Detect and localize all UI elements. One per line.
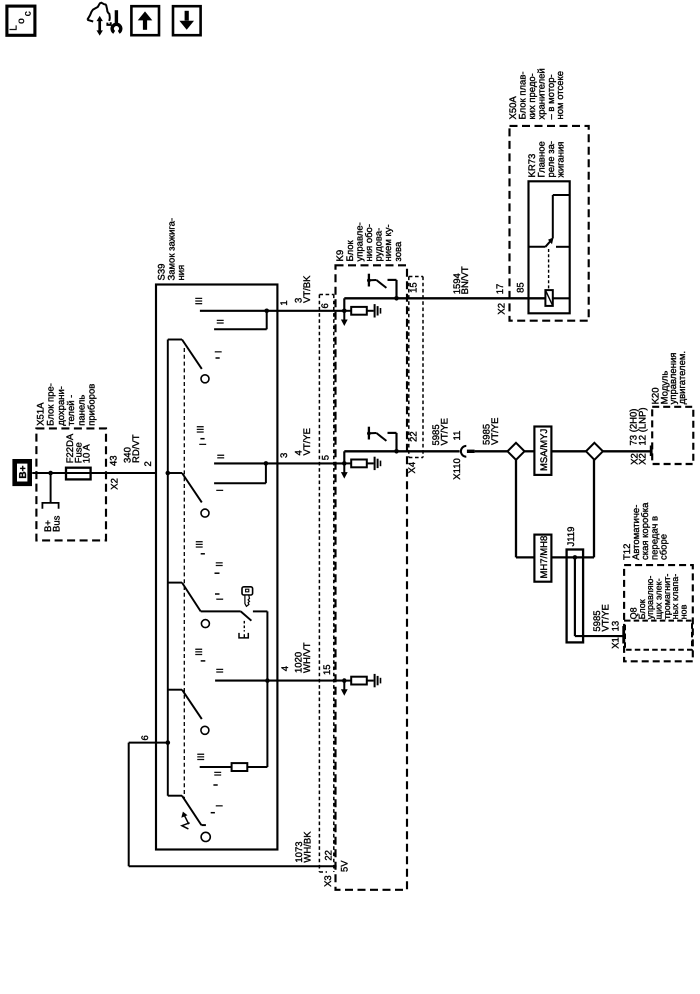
wire J119 to Q8 (5985 VT/YE)	[575, 635, 623, 637]
wire: diamond 1 down to MH7/MH8	[516, 460, 534, 558]
svg-text:I: I	[214, 351, 225, 354]
wire to MSA/MYJ	[525, 450, 535, 452]
svg-text:II: II	[216, 319, 227, 324]
svg-text:43: 43	[109, 455, 120, 466]
wire label 1073 WH/BK	[294, 831, 314, 863]
svg-text:двигателем.: двигателем.	[677, 351, 688, 404]
svg-text:6: 6	[320, 303, 331, 308]
splice diamond 2	[586, 443, 603, 460]
svg-text:I: I	[215, 598, 226, 601]
svg-text:VT/YE: VT/YE	[439, 418, 450, 445]
svg-text:зова: зова	[393, 241, 404, 261]
svg-text:III: III	[196, 425, 207, 433]
splice pack J119	[566, 527, 583, 643]
icon: up-arrow box	[131, 6, 159, 35]
KR73 contact	[529, 195, 570, 247]
S39 wiper arm 2	[168, 473, 209, 517]
svg-text:85: 85	[515, 282, 526, 293]
K9 channel 2 input (pin 5, 4 VT/YE)	[321, 451, 381, 478]
pins 73 (2H0) / 12 (LNP) at K20	[629, 407, 649, 464]
K9 channel 4 input (pin 22, 1073 WH/BK, 5V)	[323, 850, 351, 887]
splice diamond 1	[508, 443, 525, 460]
svg-text:III: III	[194, 648, 205, 656]
svg-text:I: I	[215, 489, 226, 492]
svg-text:приборов: приборов	[87, 384, 98, 426]
svg-text:L: L	[8, 25, 19, 31]
svg-text:6: 6	[140, 735, 151, 740]
svg-text:ном отсеке: ном отсеке	[555, 71, 566, 120]
svg-text:22: 22	[409, 431, 420, 442]
connector X4 strip (dash-dot)	[407, 277, 423, 474]
svg-text:X2: X2	[496, 303, 507, 315]
S39 wiper arm 4	[168, 690, 209, 735]
svg-text:2: 2	[143, 461, 154, 466]
icon: LOC box	[7, 6, 35, 35]
svg-text:II: II	[215, 668, 226, 673]
S39 key-operated contact (channel pin 4)	[201, 611, 268, 680]
body control module K9 (dashed)	[335, 222, 407, 890]
svg-text:o: o	[16, 18, 27, 24]
relay KR73 (main ignition relay)	[527, 141, 570, 313]
option box MSA/MYJ	[534, 427, 551, 475]
ignition switch S39 (Замок зажигания) box	[156, 218, 277, 850]
svg-text:17: 17	[495, 284, 506, 295]
wire label 1594 BN/VT	[452, 266, 471, 294]
transmission assembly T12 (dashed)	[622, 502, 693, 661]
svg-text:15: 15	[322, 664, 333, 675]
svg-text:WH/BK: WH/BK	[303, 831, 314, 863]
terminal at T12	[622, 626, 625, 644]
svg-text:3: 3	[279, 453, 290, 458]
svg-text:I: I	[214, 805, 225, 808]
K9 channel 2 internal switch and bus to pin 22	[344, 427, 459, 454]
svg-text:X110: X110	[452, 458, 463, 479]
svg-text:VT/YE: VT/YE	[490, 418, 501, 445]
svg-text:X2: X2	[109, 478, 120, 490]
svg-text:MH7/MH8: MH7/MH8	[539, 536, 550, 579]
svg-text:жигания: жигания	[556, 142, 567, 178]
position marks II / I near arm 5	[211, 771, 226, 813]
svg-text:Bus: Bus	[51, 515, 62, 532]
wire label 1020 WH/VT	[294, 642, 313, 673]
svg-text:J119: J119	[566, 527, 577, 547]
svg-text:II: II	[213, 771, 224, 776]
svg-text:WH/VT: WH/VT	[302, 642, 313, 673]
svg-text:4: 4	[280, 666, 291, 671]
option box MH7/MH8	[534, 535, 551, 582]
B+ Bus symbol	[42, 473, 62, 532]
engine control module K20 (dashed)	[650, 351, 693, 464]
svg-text:10 A: 10 A	[82, 444, 93, 464]
K9 channel 1 input (pin 6, 3 VT/BK)	[320, 298, 381, 326]
terminal at K20	[650, 446, 653, 457]
S39 contact I line (channel 2)	[214, 461, 268, 492]
wire diamond 2 to K20	[603, 450, 651, 452]
S39 internal feed line	[167, 340, 169, 796]
position marks III near arm 4	[194, 648, 205, 661]
wire label 5985 VT/YE (after X110)	[482, 418, 501, 445]
svg-text:22: 22	[324, 850, 335, 861]
fuse block X50A (dashed)	[508, 68, 589, 320]
svg-text:MSA/MYJ: MSA/MYJ	[539, 429, 550, 471]
icon: car with double arrow and wrench	[87, 3, 120, 36]
position mark I near arm 1	[214, 351, 225, 358]
S39 resistor contact line (position III)	[196, 681, 267, 771]
svg-text:X4: X4	[407, 462, 418, 474]
svg-text:BN/VT: BN/VT	[460, 266, 471, 294]
position marks III / II / I near arm 3	[195, 540, 227, 600]
wire label 5985 VT/YE (before X110)	[431, 418, 450, 445]
S39 contact II line (channel 3, pin 4)	[215, 668, 344, 683]
wire label 4 VT/YE	[294, 428, 313, 455]
K9 channel 3 input (pin 15, 1020 WH/VT)	[322, 664, 381, 695]
node: B+ bus junction	[48, 471, 53, 476]
in-line connector X110 pin 11	[452, 431, 508, 480]
svg-text:5V: 5V	[340, 860, 351, 872]
S39 contact II line (channel 2, pin 3)	[214, 454, 344, 463]
svg-text:12 (LNP): 12 (LNP)	[638, 407, 649, 445]
S39 wiper arm 3 (key contact)	[168, 583, 210, 628]
wire label 5985 VT/YE (to Q8)	[592, 604, 611, 631]
S39 contact II line (channel 1)	[214, 309, 269, 330]
position marks III / I between arm1 and channel 2	[196, 425, 209, 445]
wire 1073 WH/BK rail	[129, 865, 337, 867]
svg-text:II: II	[216, 454, 227, 459]
svg-text:I: I	[198, 443, 209, 446]
S39 contact III line (channel 1, pin 1)	[194, 297, 344, 311]
pin 6 (S39) and wire to 1073 rail	[129, 735, 168, 866]
S39 wiper arm 5 (spring return)	[168, 796, 210, 842]
svg-text:13: 13	[611, 621, 622, 632]
connector X3 strip (dash-dot)	[319, 295, 333, 873]
pin 17 / connector X2 (X50A)	[495, 284, 507, 315]
fuse F22DA 10A	[65, 433, 93, 479]
svg-text:III: III	[195, 540, 206, 548]
svg-text:сборе: сборе	[659, 534, 670, 560]
key icon	[242, 587, 253, 607]
node: pin6 junction	[166, 740, 171, 745]
fuse block X51A (dashed)	[36, 383, 107, 540]
S39 wiper arm 1	[168, 340, 209, 383]
wire MSA/MYJ to diamond 2	[551, 450, 586, 452]
wire label 3 VT/BK	[294, 275, 313, 303]
wire: B+ to S39 pin 2 (340 RD/VT)	[32, 472, 156, 474]
svg-text:VT/YE: VT/YE	[302, 428, 313, 455]
svg-text:B+: B+	[18, 465, 29, 478]
svg-text:II: II	[215, 562, 226, 567]
wire MH7/MH8 to J119 and diamond 2 drop	[551, 460, 594, 558]
S39 mechanical link (dashed)	[183, 348, 185, 799]
svg-text:RD/VT: RD/VT	[131, 434, 142, 463]
svg-text:III: III	[194, 297, 205, 305]
svg-text:нов: нов	[678, 604, 688, 619]
svg-text:III: III	[196, 753, 207, 761]
K9 channel 1 internal switch and bus to pin 15	[344, 274, 545, 301]
svg-text:c: c	[23, 11, 34, 16]
solenoid valve block Q8 (dashed)	[625, 574, 692, 650]
pin 13 / connector X1 (T12)	[611, 621, 622, 649]
svg-text:1: 1	[279, 300, 290, 305]
svg-text:15: 15	[408, 282, 419, 293]
svg-text:5: 5	[321, 455, 332, 460]
svg-text:X1: X1	[611, 637, 622, 649]
svg-text:VT/BK: VT/BK	[302, 275, 313, 303]
node: pin2 junction	[166, 471, 171, 476]
wire label 340 RD/VT	[123, 434, 142, 463]
svg-text:X3: X3	[323, 875, 334, 887]
icon: down-arrow box	[173, 6, 201, 35]
battery feed B+	[15, 461, 30, 484]
svg-text:11: 11	[452, 431, 463, 441]
svg-text:X2: X2	[638, 453, 649, 465]
svg-text:ния: ния	[176, 265, 187, 281]
KR73 coil and mechanical dashed link	[545, 249, 569, 306]
